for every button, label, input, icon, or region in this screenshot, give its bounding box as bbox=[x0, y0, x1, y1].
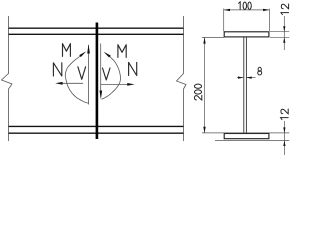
dim 100 left extension bbox=[223, 9, 225, 32]
dim 200 bottom extension long bbox=[202, 132, 289, 134]
section web left line bbox=[243, 37, 245, 133]
moment arrowhead left bbox=[79, 51, 86, 57]
shear V arrowhead right (down) bbox=[100, 91, 103, 100]
dim 200 bottom arrow (down) bbox=[203, 127, 205, 133]
moment arrowhead right bbox=[104, 52, 111, 58]
dim 12 bottom arrow A bbox=[283, 127, 285, 133]
section top flange bbox=[224, 32, 269, 37]
dim 12 top line bbox=[283, 16, 285, 50]
dim 12 top extension lower bbox=[270, 36, 289, 38]
dim 8 right arrow bbox=[246, 77, 252, 79]
dim 12 top extension upper bbox=[270, 31, 289, 33]
dim 200 line bbox=[204, 37, 206, 133]
dim 12 bottom lower extension bbox=[215, 140, 289, 142]
dim 8 left arrow bbox=[238, 77, 244, 79]
dim 200 top extension bbox=[202, 36, 224, 38]
dim 100 line bbox=[224, 9, 270, 11]
bottom flange bottom line bbox=[9, 132, 184, 134]
dim 12 bottom line bbox=[283, 121, 285, 155]
dim 100 right arrow bbox=[263, 9, 269, 11]
label N right bbox=[129, 62, 137, 75]
axial N arrowhead left bbox=[55, 82, 62, 85]
dim 100 text bbox=[239, 2, 241, 10]
shear V arrowhead left (up) bbox=[87, 44, 90, 53]
dim 8 line left bbox=[237, 77, 243, 79]
dim 12 bottom text (rotated) bbox=[281, 109, 289, 120]
label V left bbox=[78, 67, 86, 80]
dim 12 top arrow B bbox=[283, 37, 285, 43]
top flange bottom line bbox=[9, 33, 184, 35]
dim 12 bottom arrow B bbox=[283, 141, 285, 147]
axial N line left bbox=[62, 82, 83, 84]
splice line bbox=[96, 23, 99, 140]
dim 200 top arrow (up) bbox=[203, 37, 205, 43]
dim 200 text (rotated) bbox=[194, 84, 201, 100]
dim 8 line right bbox=[246, 77, 255, 79]
beam left edge with break symbol bbox=[2, 16, 13, 141]
label V right bbox=[103, 68, 111, 80]
section bottom flange bbox=[224, 134, 269, 139]
label M left bbox=[63, 44, 71, 57]
axial N line right bbox=[101, 83, 127, 85]
dim 12 top arrow A bbox=[283, 26, 285, 32]
dim 100 right extension bbox=[268, 9, 270, 32]
label N left bbox=[53, 63, 61, 76]
beam right edge with break symbol bbox=[177, 16, 187, 141]
axial N arrowhead right bbox=[127, 83, 134, 86]
moment arc right bbox=[102, 56, 121, 99]
section web right line bbox=[245, 37, 247, 133]
shear V line right bbox=[100, 44, 102, 91]
top flange top line bbox=[9, 27, 184, 29]
dim 100 left arrow bbox=[224, 9, 230, 11]
dim 12 top text (rotated) bbox=[281, 4, 289, 15]
shear V line left bbox=[88, 45, 90, 105]
label M right bbox=[118, 45, 126, 58]
bottom flange top line bbox=[9, 125, 184, 127]
dim 8 text bbox=[258, 67, 261, 71]
moment arc left bbox=[65, 56, 88, 103]
